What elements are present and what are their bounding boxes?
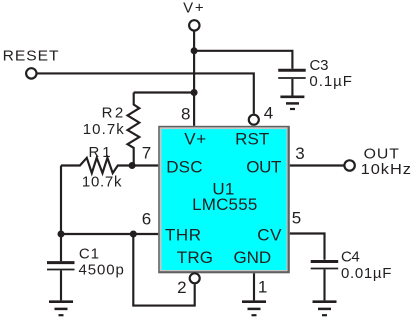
- ground pin 1: [242, 302, 266, 316]
- svg-text:7: 7: [142, 144, 151, 163]
- wire node C to pin 7: [132, 164, 158, 166]
- wire node E to pin 2: [133, 234, 194, 306]
- wire R1 left down to node D: [60, 166, 62, 235]
- svg-text:0.01µF: 0.01µF: [341, 265, 392, 282]
- pin 2 bubble: [190, 273, 200, 283]
- wire V+ circle to node A: [193, 31, 195, 51]
- node A junction: [191, 47, 198, 54]
- svg-text:GND: GND: [233, 248, 271, 267]
- svg-text:R1: R1: [89, 144, 112, 161]
- svg-text:2: 2: [177, 278, 186, 297]
- pin 4 bubble: [249, 115, 259, 125]
- wire pin 1 to ground: [253, 273, 255, 300]
- svg-text:10.7k: 10.7k: [82, 173, 123, 190]
- svg-text:RESET: RESET: [3, 48, 60, 65]
- wire node A to C3: [194, 51, 292, 69]
- wire pin 5 to C4: [290, 234, 325, 260]
- wire node A to node B: [193, 51, 195, 93]
- svg-text:TRG: TRG: [177, 248, 213, 267]
- capacitor C1: [47, 263, 75, 301]
- wire node B to R2 top: [134, 91, 194, 93]
- svg-text:4500p: 4500p: [79, 261, 125, 278]
- wire node E to pin 6: [133, 233, 158, 235]
- svg-text:6: 6: [142, 210, 151, 229]
- terminal OUT circle: [344, 160, 354, 170]
- resistor R1: [61, 158, 132, 173]
- ground C4: [313, 302, 337, 316]
- capacitor C4: [311, 262, 339, 301]
- IC U1 LMC555 body: [158, 126, 290, 273]
- svg-text:5: 5: [292, 209, 301, 228]
- capacitor C3: [278, 70, 306, 95]
- svg-text:OUT: OUT: [246, 157, 281, 176]
- wire node B to pin 8: [193, 93, 195, 126]
- svg-text:3: 3: [295, 144, 304, 163]
- svg-text:4: 4: [264, 103, 273, 122]
- svg-text:1: 1: [258, 277, 267, 296]
- wire pin 3 to OUT terminal: [290, 164, 344, 166]
- wire node D to C1: [60, 234, 62, 261]
- node C junction (R1/R2/pin7): [129, 162, 136, 169]
- svg-text:V+: V+: [183, 0, 204, 17]
- svg-text:8: 8: [181, 105, 190, 124]
- svg-text:DSC: DSC: [166, 157, 203, 176]
- svg-text:C1: C1: [79, 246, 100, 263]
- ground C3: [280, 97, 304, 109]
- wire node D to node E: [61, 233, 133, 235]
- node B junction: [191, 89, 198, 96]
- terminal RESET circle: [26, 68, 36, 78]
- resistor R2: [128, 93, 140, 166]
- svg-text:10.7k: 10.7k: [83, 121, 125, 138]
- svg-text:0.1µF: 0.1µF: [309, 73, 352, 90]
- svg-text:CV: CV: [257, 225, 282, 244]
- terminal V+ circle: [189, 20, 199, 30]
- svg-text:R2: R2: [102, 105, 125, 122]
- svg-text:RST: RST: [235, 129, 269, 148]
- svg-text:C4: C4: [341, 249, 361, 266]
- svg-text:LMC555: LMC555: [192, 195, 257, 214]
- wire RESET to pin 4: [37, 73, 254, 113]
- node E junction: [130, 231, 137, 238]
- svg-text:C3: C3: [310, 57, 330, 74]
- ground C1: [49, 302, 73, 316]
- svg-text:10kHz: 10kHz: [361, 161, 412, 178]
- svg-text:THR: THR: [165, 225, 201, 244]
- node D junction: [58, 231, 65, 238]
- svg-text:V+: V+: [184, 129, 206, 148]
